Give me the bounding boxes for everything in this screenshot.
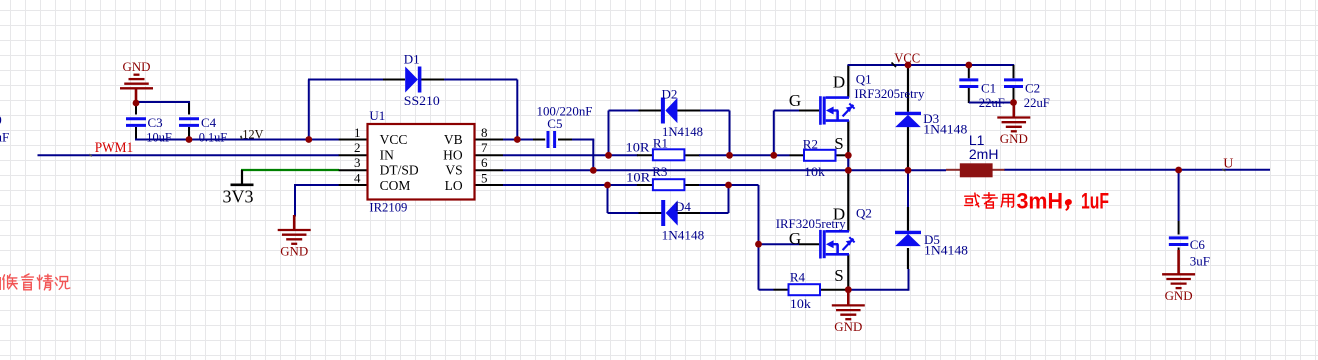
- svg-text:R2: R2: [803, 137, 818, 152]
- svg-text:1N4148: 1N4148: [662, 227, 705, 242]
- svg-text:VCC: VCC: [380, 132, 408, 147]
- svg-text:C2: C2: [1025, 81, 1040, 96]
- svg-text:PWM1: PWM1: [95, 140, 134, 156]
- svg-text:10uF: 10uF: [146, 130, 172, 145]
- svg-text:D2: D2: [662, 87, 678, 102]
- svg-text:U: U: [1223, 157, 1233, 172]
- svg-text:VS: VS: [445, 163, 462, 178]
- svg-text:1N4148: 1N4148: [924, 243, 968, 258]
- svg-text:Q1: Q1: [856, 72, 872, 87]
- svg-text:C5: C5: [547, 116, 562, 131]
- svg-text:S: S: [834, 134, 843, 153]
- svg-text:10k: 10k: [804, 164, 826, 179]
- svg-text:5: 5: [481, 170, 488, 185]
- svg-text:GND: GND: [1000, 131, 1028, 146]
- svg-text:C3: C3: [148, 115, 163, 130]
- svg-text:HO: HO: [443, 147, 463, 162]
- svg-text:D4: D4: [675, 199, 691, 214]
- svg-text:3V3: 3V3: [223, 187, 254, 207]
- svg-text:2mH: 2mH: [969, 146, 999, 162]
- svg-text:C4: C4: [201, 115, 217, 130]
- svg-text:D: D: [833, 72, 845, 91]
- svg-text:G: G: [789, 229, 801, 248]
- svg-text:1N4148: 1N4148: [662, 124, 703, 139]
- svg-text:10k: 10k: [790, 296, 812, 311]
- svg-text:C1: C1: [981, 81, 996, 96]
- svg-text:4: 4: [354, 170, 361, 185]
- svg-text:VCC: VCC: [894, 52, 920, 67]
- svg-text:10R: 10R: [626, 140, 650, 155]
- svg-text:3mH: 3mH: [1017, 189, 1064, 214]
- svg-text:G: G: [789, 91, 801, 110]
- svg-text:9: 9: [0, 113, 2, 128]
- svg-text:2: 2: [354, 140, 361, 155]
- svg-text:GND: GND: [834, 319, 862, 334]
- svg-text:3: 3: [354, 155, 361, 170]
- svg-text:C6: C6: [1190, 237, 1206, 252]
- svg-text:1N4148: 1N4148: [923, 122, 967, 137]
- svg-text:GND: GND: [1165, 288, 1193, 303]
- svg-text:IR2109: IR2109: [369, 200, 407, 215]
- svg-text:1uF: 1uF: [1081, 189, 1109, 214]
- svg-text:7: 7: [481, 140, 488, 155]
- svg-text:22uF: 22uF: [979, 95, 1005, 110]
- svg-text:D1: D1: [404, 52, 420, 67]
- svg-text:8: 8: [481, 125, 488, 140]
- svg-text:GND: GND: [280, 244, 308, 259]
- svg-text:Q2: Q2: [856, 206, 872, 221]
- svg-text:R4: R4: [790, 270, 806, 285]
- svg-text:R3: R3: [652, 164, 667, 179]
- svg-text:U1: U1: [369, 108, 385, 123]
- svg-text:DT/SD: DT/SD: [380, 163, 419, 178]
- svg-text:0.1uF: 0.1uF: [199, 130, 228, 145]
- svg-text:1: 1: [354, 125, 361, 140]
- svg-text:S: S: [834, 266, 843, 285]
- svg-text:IN: IN: [380, 147, 394, 162]
- svg-text:12V: 12V: [242, 127, 264, 142]
- svg-text:LO: LO: [445, 178, 463, 193]
- svg-text:uF: uF: [0, 129, 9, 144]
- svg-text:3uF: 3uF: [1190, 253, 1210, 268]
- svg-text:IRF3205retry: IRF3205retry: [854, 86, 924, 101]
- svg-text:10R: 10R: [626, 170, 650, 185]
- svg-text:6: 6: [481, 155, 488, 170]
- svg-text:R1: R1: [653, 135, 668, 150]
- svg-text:SS210: SS210: [404, 93, 440, 108]
- svg-text:GND: GND: [123, 59, 151, 74]
- svg-text:22uF: 22uF: [1024, 95, 1050, 110]
- svg-text:VB: VB: [444, 132, 463, 147]
- svg-text:100/220nF: 100/220nF: [537, 104, 593, 119]
- svg-text:D: D: [833, 204, 845, 223]
- svg-text:COM: COM: [380, 178, 411, 193]
